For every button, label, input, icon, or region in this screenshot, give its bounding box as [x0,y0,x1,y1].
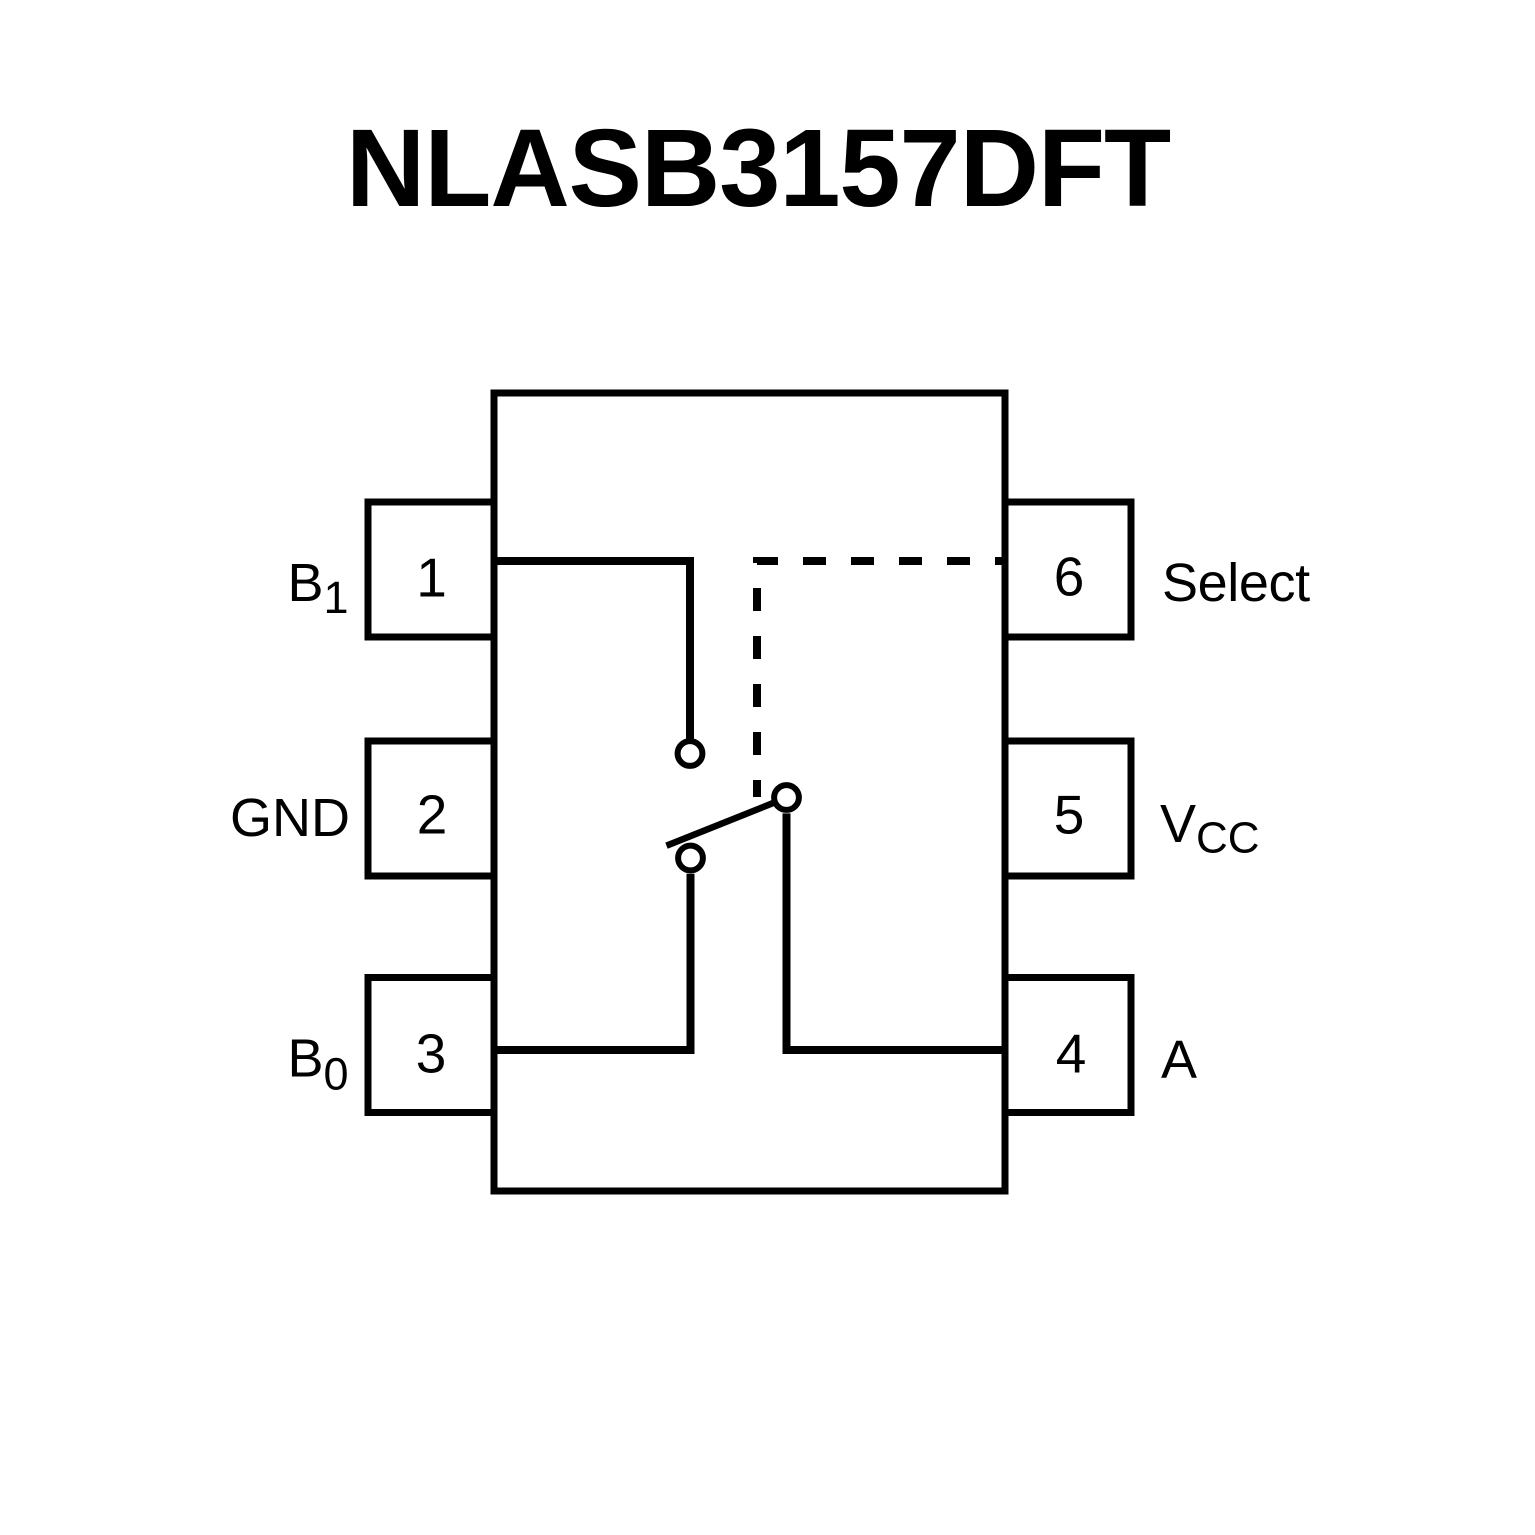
pin 2 box [368,741,494,876]
wire from pin 3 (B0 throw) [494,874,691,1050]
dashed select control line [757,561,1005,797]
svg-text:6: 6 [1054,546,1085,608]
pin 5 box [1005,741,1131,876]
svg-text:Select: Select [1162,553,1310,613]
pole pivot circle [774,785,799,810]
svg-text:3: 3 [416,1022,447,1084]
svg-text:5: 5 [1054,784,1085,846]
svg-text:A: A [1161,1030,1197,1090]
svg-text:1: 1 [416,547,447,609]
svg-text:4: 4 [1056,1022,1087,1084]
svg-text:2: 2 [417,784,448,846]
pin 3 box [368,978,494,1113]
B1 throw contact circle [678,741,703,766]
wire from pin 1 (B1 throw) [494,561,690,739]
B0 throw contact circle [678,846,703,871]
pin 6 box [1005,502,1131,637]
svg-text:NLASB3157DFT: NLASB3157DFT [346,107,1171,230]
pin 4 box [1005,978,1131,1113]
svg-text:GND: GND [230,788,350,848]
pin 1 box [368,502,494,637]
IC body U1 [494,393,1005,1191]
switch arm [667,803,773,846]
wire from pin 4 (pole A) [787,813,1006,1050]
